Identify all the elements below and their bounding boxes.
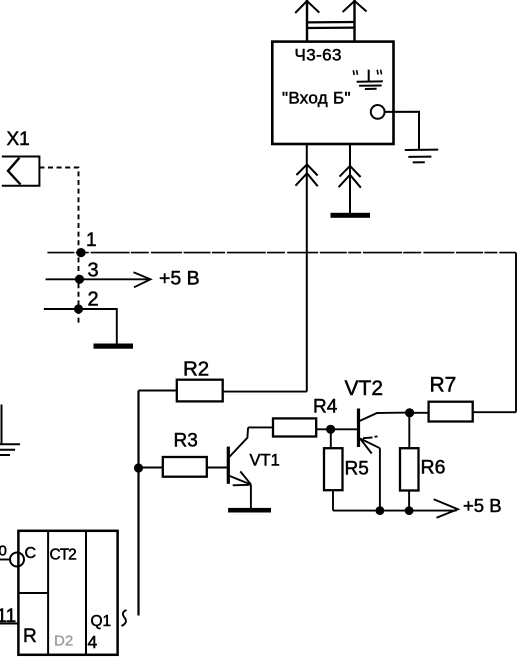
instrument box U1 Ч3-63: [272, 42, 393, 144]
svg-text:X1: X1: [7, 129, 30, 150]
ground bar under right lead: [331, 213, 371, 218]
wire from terminal to right ground: [385, 112, 419, 150]
wire left top lead to instrument: [306, 0, 308, 42]
wire left bus vertical: [137, 391, 139, 616]
junction node 3: [75, 275, 84, 284]
svg-text:Ч3-63: Ч3-63: [295, 46, 342, 65]
junction node 2: [74, 304, 83, 313]
svg-text:R7: R7: [430, 374, 457, 397]
ground bar under node 2: [94, 344, 134, 349]
wire left lead down from box bottom: [306, 144, 308, 392]
wire junction to R6: [408, 413, 410, 448]
connector X1 symbol: [2, 157, 40, 186]
junction VT2 collector R6 R7: [405, 408, 414, 417]
squiggle mark at Q1 output: [122, 610, 127, 626]
svg-text:0: 0: [0, 543, 7, 560]
ground right of box: [405, 150, 438, 163]
transistor VT1: [227, 447, 230, 484]
junction R6 rail: [405, 506, 414, 515]
wire bus to R2: [139, 390, 177, 392]
internal ground symbol: [357, 70, 383, 89]
wire R2 to box lead: [223, 391, 307, 393]
wire R4 to VT2 base junction: [316, 428, 357, 430]
cable double line between leads: [306, 22, 356, 28]
wire into C input: [0, 559, 10, 561]
resistor R6: [400, 448, 419, 490]
dashed wire from X1: [39, 168, 78, 325]
arrow +5V bottom: [434, 499, 458, 518]
svg-text:C: C: [25, 545, 37, 562]
node 2 wire: [44, 309, 117, 344]
svg-text:+5 В: +5 В: [159, 268, 200, 290]
wire R6 to bottom rail: [408, 491, 410, 511]
svg-text:R: R: [23, 626, 37, 647]
wire right lead down from box bottom: [349, 144, 351, 213]
bottom rail wire to +5V: [333, 510, 457, 512]
junction bus R3: [134, 463, 143, 472]
counter IC D2 box: [18, 531, 117, 655]
resistor R4: [273, 418, 316, 436]
wire R3 to VT1 base: [207, 467, 228, 469]
svg-text:2: 2: [88, 289, 99, 311]
ground stub far left: [0, 405, 20, 456]
quote marks around internal ground: [353, 70, 381, 75]
svg-text:VT2: VT2: [345, 377, 384, 400]
svg-text:R4: R4: [313, 397, 338, 418]
divider left column: [47, 531, 49, 655]
wire junction to R7: [410, 412, 429, 414]
wire bus to R3: [139, 467, 163, 469]
terminal circle on box right edge: [371, 105, 385, 119]
wire VT2 emitter down: [379, 448, 381, 510]
wire R5 to bottom rail: [332, 490, 334, 510]
svg-text:R5: R5: [345, 459, 369, 480]
arrow up left: [295, 1, 319, 13]
wire right bus vertical: [515, 253, 517, 413]
svg-text:VT1: VT1: [250, 452, 280, 470]
wire right top lead to instrument: [353, 0, 355, 42]
wire into R input: [0, 623, 18, 625]
svg-text:+5 В: +5 В: [463, 495, 502, 516]
svg-text:4: 4: [88, 632, 98, 652]
node 1 horizontal wire: [47, 252, 516, 254]
inversion circle C input: [10, 553, 24, 567]
svg-text:R3: R3: [174, 431, 198, 452]
node 3 wire with +5V arrow: [46, 278, 150, 280]
junction R4 R5 VT2: [326, 425, 335, 434]
resistor R3: [163, 457, 207, 477]
svg-text:CT2: CT2: [50, 547, 77, 564]
resistor R5: [324, 448, 343, 490]
resistor R2: [177, 380, 223, 402]
svg-text:D2: D2: [54, 633, 73, 650]
arrow up right: [343, 1, 367, 12]
resistor R7: [429, 402, 473, 422]
divider C R rows: [18, 592, 48, 594]
svg-text:"Вход Б": "Вход Б": [282, 89, 351, 108]
svg-text:1: 1: [86, 230, 97, 251]
divider right column: [85, 531, 87, 655]
wire VT1 emitter to ground: [250, 485, 252, 508]
transistor VT2: [357, 409, 360, 448]
junction VT2 emitter rail: [376, 506, 385, 515]
svg-text:R2: R2: [183, 358, 209, 381]
wire VT1 collector to R4: [248, 426, 273, 428]
chevrons on right lead: [339, 166, 361, 188]
svg-text:Q1: Q1: [91, 613, 112, 630]
chevrons on left lead: [296, 164, 318, 186]
svg-text:3: 3: [88, 260, 99, 282]
svg-text:R6: R6: [421, 457, 446, 479]
wire R7 to right bus: [473, 411, 516, 413]
ground bar VT1: [228, 508, 271, 513]
junction node 1: [76, 248, 85, 257]
wire junction to R5: [330, 429, 332, 448]
